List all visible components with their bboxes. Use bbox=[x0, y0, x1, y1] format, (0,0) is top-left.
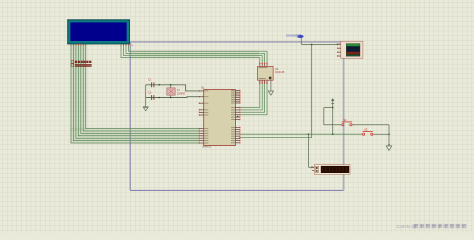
svg-text:C2: C2 bbox=[148, 91, 152, 95]
svg-text:CSDN @: CSDN @ bbox=[397, 224, 417, 230]
svg-text:AT89C51: AT89C51 bbox=[202, 146, 212, 149]
svg-text:X24C45: X24C45 bbox=[275, 70, 285, 74]
svg-text:U1: U1 bbox=[201, 85, 205, 89]
svg-text:S2: S2 bbox=[364, 128, 368, 132]
svg-text:C1: C1 bbox=[148, 78, 152, 82]
svg-text:S1: S1 bbox=[343, 118, 347, 122]
svg-text:12MHZ: 12MHZ bbox=[177, 92, 186, 95]
